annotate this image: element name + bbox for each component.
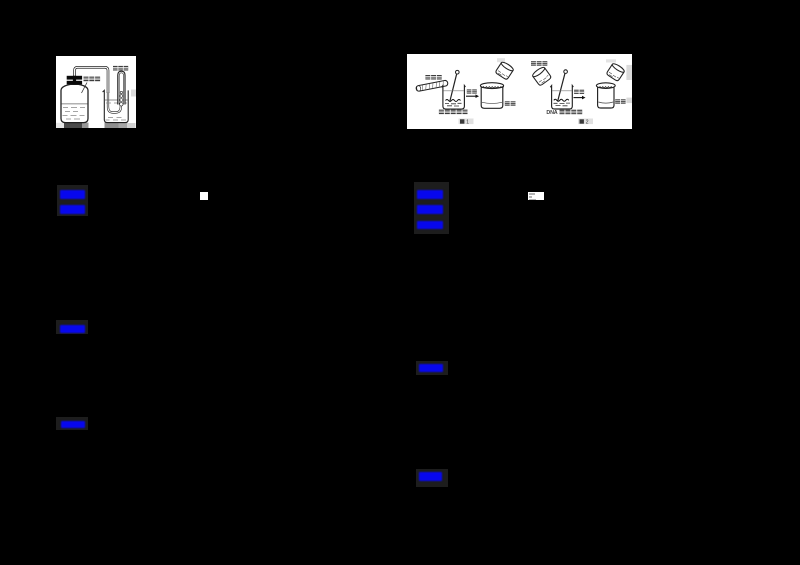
svg-text:1: 1 (466, 119, 469, 125)
svg-text:2: 2 (586, 119, 589, 125)
svg-text:DNA: DNA (546, 110, 557, 116)
